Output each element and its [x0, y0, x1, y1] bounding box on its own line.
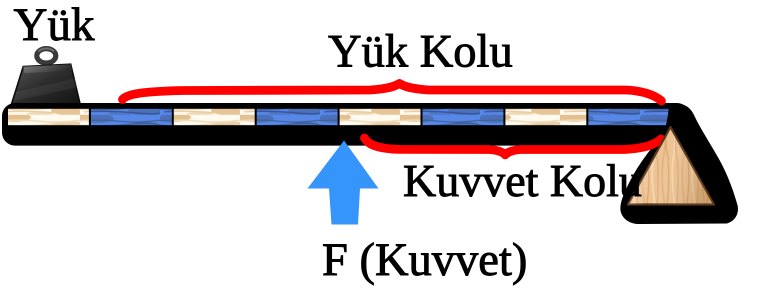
- beam segment wood 3: [340, 109, 421, 125]
- load weight W1 (body): [11, 64, 81, 106]
- beam segment blue 2: [257, 109, 338, 125]
- svg-text:Kuvvet Kolu: Kuvvet Kolu: [403, 155, 642, 206]
- fulcrum triangle (wood face): [628, 127, 714, 205]
- fulcrum triangle (black outline blob): [620, 104, 738, 224]
- fulcrum triangle (shading overlay): [628, 127, 714, 205]
- svg-text:F (Kuvvet): F (Kuvvet): [322, 235, 527, 286]
- beam segment blue 1: [91, 109, 172, 125]
- beam segment wood 1: [8, 109, 89, 125]
- lever beam (black body): [2, 103, 690, 146]
- load weight W1 (ring handle): [37, 48, 56, 63]
- beam segment blue 4: [588, 109, 669, 125]
- red over-brace: Yük Kolu span: [123, 84, 662, 102]
- red under-brace: Kuvvet Kolu span: [365, 138, 662, 155]
- beam segment wood 2: [174, 109, 255, 125]
- svg-text:Yük: Yük: [14, 0, 95, 51]
- svg-text:Yük Kolu: Yük Kolu: [328, 27, 513, 78]
- beam segment wood 4: [505, 109, 586, 125]
- force arrow F (blue, pointing up): [308, 141, 379, 225]
- beam segment blue 3: [423, 109, 504, 125]
